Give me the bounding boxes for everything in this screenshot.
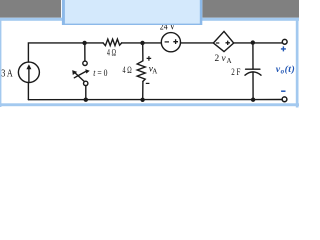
label output minus sign — [281, 90, 285, 92]
junction node bottom of switch branch — [84, 98, 88, 102]
wire resistor R2 branch top stub — [142, 43, 144, 61]
label minus inside dependent source — [216, 42, 219, 44]
label plus inside 24V source — [173, 39, 178, 44]
junction node bottom of R2 branch — [140, 98, 144, 102]
label vA plus sign — [147, 56, 152, 61]
junction node top of R2 branch — [140, 41, 144, 45]
terminal top output — [282, 39, 287, 44]
wire switch top stub — [84, 43, 86, 61]
label output plus sign — [281, 46, 286, 51]
svg-text:3 A: 3 A — [1, 69, 13, 80]
svg-text:A: A — [152, 67, 157, 75]
popup box overlay — [62, 0, 202, 25]
junction node bottom of capacitor branch — [251, 98, 255, 102]
switch SW1 motion arrowhead — [85, 69, 89, 73]
svg-text:A: A — [227, 57, 232, 65]
switch SW1 top contact — [83, 61, 87, 65]
svg-text:vo(t): vo(t) — [276, 64, 295, 76]
wire capacitor C1 top stub — [252, 43, 254, 69]
terminal bottom output — [282, 97, 287, 102]
voltage source V1 24V circle — [161, 33, 180, 52]
wire from dependent source to output terminal — [234, 42, 283, 44]
wire between V1 and dependent source — [181, 42, 214, 44]
resistor R1 4ohm horizontal — [103, 39, 122, 46]
svg-text:t = 0: t = 0 — [93, 68, 108, 78]
current source I1 3A circle — [18, 62, 39, 82]
capacitor C1 top plate — [246, 68, 260, 70]
wire switch bottom stub — [85, 86, 87, 100]
current source I1 arrowhead — [26, 64, 31, 69]
wire resistor R2 branch bottom stub — [142, 81, 144, 99]
wire top bus between R1 and 24V source — [122, 42, 162, 44]
label vA minus sign — [146, 82, 150, 84]
svg-text:2 F: 2 F — [231, 68, 240, 78]
capacitor C1 curved bottom plate — [245, 72, 261, 75]
svg-text:2 v: 2 v — [215, 54, 227, 64]
switch SW1 bottom contact — [84, 81, 88, 85]
switch SW1 motion arrow curve — [74, 71, 86, 77]
junction node top of switch branch — [82, 41, 86, 45]
label plus inside dependent source — [226, 41, 230, 45]
svg-text:4 Ω: 4 Ω — [107, 48, 116, 58]
resistor R2 4ohm vertical — [137, 61, 145, 82]
current source I1 arrow shaft — [28, 68, 30, 82]
dependent source U1 diamond 2vA — [213, 31, 233, 51]
wire top bus left segment — [28, 43, 103, 62]
svg-text:4 Ω: 4 Ω — [123, 66, 132, 76]
wire left branch below 3A source — [27, 83, 29, 100]
switch SW1 blade — [74, 72, 84, 82]
wire bottom bus — [28, 99, 282, 101]
wire capacitor C1 bottom stub — [252, 72, 254, 99]
label minus inside 24V source — [165, 41, 169, 43]
junction node top of capacitor branch — [251, 40, 255, 44]
switch SW1 blade arrowhead — [72, 70, 77, 75]
